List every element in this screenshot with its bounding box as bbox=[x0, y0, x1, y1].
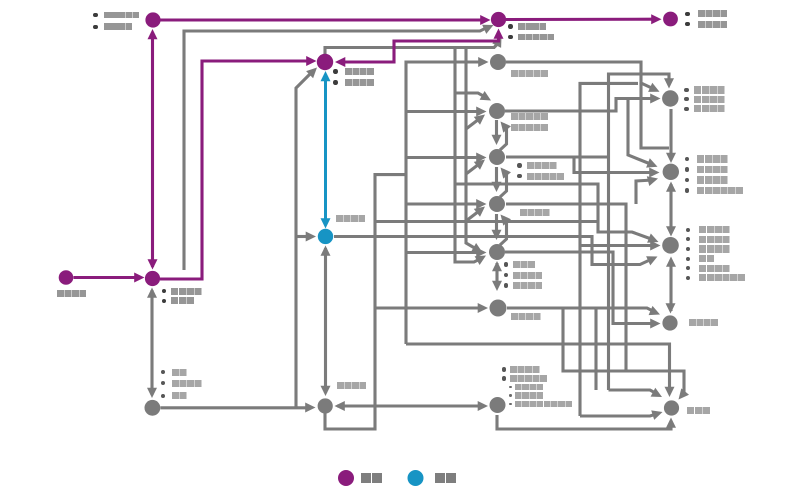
wire: gray branch x=296 into 機器學習 bbox=[296, 235, 311, 238]
label 語音辨識 / 資訊檢索 / 文字探勘 / 自然語言處理 bbox=[685, 157, 689, 161]
legend dot 選擇 bbox=[408, 470, 424, 486]
wire: gray 資料科學 fan top y=47.5 to x=466 with arrow up into 平行運算 bbox=[325, 48, 495, 55]
wire: gray 圖模型-智慧代理 bidirectional x=497.5 bbox=[495, 263, 498, 287]
label 模糊系統 / 最佳化理論 / 賽局理論 / 演化計算 / 線性與非線性規劃 bbox=[502, 367, 506, 371]
wire: gray fan channel x=455 down to 圖模型 bottom-left bbox=[455, 48, 482, 263]
wire: gray 增強學習-圖模型 chain down x=496.5 and curved up x=506 bbox=[495, 214, 498, 236]
wire: gray 深度學習 to 語音辨識 via x=574 bbox=[574, 157, 655, 173]
wire: gray 統計-資料結構 bidirectional x=152 bbox=[150, 290, 153, 395]
label 巨量資料/ 大數據分析 bbox=[511, 113, 548, 120]
label 機率 / 線性代數 / 統計 bbox=[161, 370, 165, 374]
label 電腦視覺 / 影像處理 / 圖形識別 bbox=[684, 88, 688, 92]
label 程式語言 bbox=[57, 290, 87, 297]
wire: gray 資料視覺化 to 電腦視覺 via x=641 diag bbox=[506, 62, 655, 90]
node 電腦對局 bbox=[662, 315, 677, 330]
label 雲端系統 / 雲端運算 bbox=[685, 12, 689, 16]
label 資料視覺化 bbox=[511, 70, 548, 77]
label 增強學習 bbox=[520, 209, 550, 216]
label 機器學習 bbox=[336, 215, 366, 222]
label 機器人 bbox=[687, 407, 710, 414]
wire: purple 平行運算 to 雲端系統 y=21.5 bbox=[506, 18, 657, 21]
wire: gray AI spine 人工智慧 bottom loop to x=375 up to y=174.6 join x=406 bbox=[325, 175, 406, 429]
wire: gray 資料結構 to 平行運算 via x=184 / y=31 bbox=[184, 27, 489, 271]
wire: gray 巨量資料-深度學習 chain down x=496.5 and curved up x=506 bbox=[495, 120, 498, 141]
label 電腦對局 bbox=[689, 319, 718, 326]
wire: purple 計算機結構 to 平行運算 y=21 bbox=[160, 18, 486, 21]
wire: gray spine branch to 圖模型 bbox=[406, 251, 482, 254]
node 語音辨識/資訊檢索/文字探勘/自然語言處理 bbox=[663, 164, 679, 180]
wire: gray 人工智慧-最佳化 bidirectional y=406 bbox=[337, 404, 485, 407]
wire: gray 統計 to 人工智慧 y=407 bbox=[161, 406, 312, 409]
wire: cyan 資料科學-機器學習 bidirectional x=325.5 bbox=[324, 74, 327, 225]
wire: gray 巨量資料 row to 語音辨識 top-left via x=628 bbox=[628, 99, 653, 166]
node 資料科學/資料採勘 bbox=[317, 54, 333, 70]
wire: gray fan channel x=466 with diagonals into 巨量/深度/增強/圖模型 bbox=[466, 48, 478, 251]
wire: gray 深度學習 channel x=608.5 north to 電腦視覺 top and south to 機器人 bbox=[609, 74, 670, 390]
wire: gray spine branch to 增強學習 west bbox=[406, 202, 482, 205]
node 資料結構/演算法 bbox=[145, 271, 160, 286]
wire: purple 資料結構 to 計算機結構 x=152 bbox=[151, 33, 154, 267]
node 雲端系統/雲端運算 bbox=[663, 12, 678, 27]
wire: gray spine branch to 深度學習 bbox=[406, 156, 482, 159]
wire: gray 智慧代理 row south x=596 to y=390 junction bbox=[594, 308, 597, 390]
node 人工智慧 bbox=[318, 398, 333, 413]
node 電腦視覺/影像處理/圖形識別 bbox=[662, 90, 678, 106]
label 資料科學 / 資料採勘 bbox=[333, 69, 337, 73]
wire: gray 深度學習-增強學習 chain down x=496.5 and curved up x=506 bbox=[495, 167, 498, 188]
node 生物資訊/精準醫學/金融科技/製造/社群網路/智慧資訊安全 bbox=[662, 237, 679, 254]
node 機率/線性代數/統計 bbox=[145, 400, 161, 416]
node 機器學習 bbox=[318, 229, 333, 244]
label 深度學習 / 類神經網路 bbox=[517, 163, 521, 167]
wire: purple 程式語言 to 資料結構 bbox=[74, 276, 141, 279]
wire: gray spine branch to 巨量資料 bbox=[406, 110, 482, 113]
wire: gray 增強學習 row south x=626 to y=371 junction bbox=[506, 204, 626, 371]
node 模糊系統/最佳化理論 bbox=[490, 397, 506, 413]
node 機器人 bbox=[664, 400, 679, 415]
wire: purple 資料結構 to 資料科學 via x=202 / y=61 bbox=[160, 61, 312, 279]
wire: gray 智慧代理 row to 機器人 top-right hook via x=563 / y=371 / x=684 bbox=[563, 308, 684, 396]
wire: gray branch x=375 to 智慧代理 bbox=[375, 306, 483, 309]
legend label 核心 bbox=[361, 473, 382, 483]
node 巨量資料/大數據分析 bbox=[489, 103, 505, 119]
node 圖模型/貝氏分析/機率模型 bbox=[489, 244, 505, 260]
wire: gray 最佳化 bottom loop to 機器人 bottom bbox=[497, 415, 671, 429]
label 平行運算 / 平行演算法 bbox=[508, 24, 512, 28]
legend label 選擇 bbox=[435, 473, 456, 483]
node 智慧代理 bbox=[490, 300, 507, 317]
wire: gray to 機器人 lower-left via x=580 / y=416 bbox=[580, 414, 658, 417]
wire: gray 機器學習 to 生物資訊 via y=237 x=596 y=264.5 bbox=[334, 237, 653, 265]
node 增強學習 bbox=[489, 196, 505, 212]
label 計算機結構 / 作業系統 bbox=[93, 13, 97, 17]
wire: gray 巨量資料 to 電腦視覺 west via x=616 bbox=[505, 99, 656, 112]
wire: gray fan branch y=184 to x=598 down to 生物資訊 top-left bbox=[455, 184, 654, 240]
legend dot 核心 bbox=[338, 470, 354, 486]
node 平行運算/平行演算法 bbox=[491, 12, 506, 27]
node 計算機結構/作業系統 bbox=[145, 12, 160, 27]
node 資料視覺化 bbox=[490, 54, 506, 70]
wire: gray spine x=406 from y=62 to y=344 bbox=[406, 62, 484, 344]
label 圖模型 / 貝氏分析 / 機率模型 bbox=[504, 262, 508, 266]
wire: gray 巨量資料 to 生物資訊 via x=580 bbox=[505, 109, 580, 112]
node 程式語言 bbox=[59, 270, 74, 285]
label 生物資訊 / 精準醫學 / 金融科技 / 製造 / 社群網路 / 智慧資訊安全 bbox=[686, 228, 690, 232]
wire: gray spine south y=344 east to x=670 down into 機器人 and up into 電腦對局 bbox=[406, 344, 670, 393]
label 資料結構 / 演算法 bbox=[162, 289, 166, 293]
wire: gray 機器學習-人工智慧 bidirectional x=325.5 bbox=[324, 248, 327, 393]
wire: gray 智慧代理 to 電腦對局 via x=613 bbox=[505, 252, 656, 324]
node 深度學習/類神經網路 bbox=[489, 149, 505, 165]
label 人工智慧 bbox=[337, 382, 367, 389]
label 智慧代理 bbox=[511, 313, 541, 320]
wire: gray 深度學習 row east join x=608.5 bbox=[506, 155, 609, 158]
wire: gray 電腦視覺 to 語音辨識 vertical x=670.5 with y=148 feed from x=641 bbox=[669, 109, 672, 159]
wire: gray branch x=375 east y=221.5 to x=598 (to 生物資訊) bbox=[375, 220, 598, 223]
wire: purple 資料科學-平行運算 bidirectional via x=394 / y=40 bbox=[338, 32, 499, 62]
wire: gray fan branch diag into 巨量資料 top-left bbox=[455, 93, 487, 98]
wire: gray branch x=296 up diag into 資料科學 bbox=[296, 71, 313, 408]
wire: gray 生物資訊-電腦對局 bidirectional x=671 bbox=[669, 260, 672, 311]
wire: gray 增強學習 row to 語音辨識 lower-left via x=636 bbox=[636, 180, 653, 204]
wire: gray 語音辨識-生物資訊 bidirectional x=671 bbox=[669, 184, 672, 233]
